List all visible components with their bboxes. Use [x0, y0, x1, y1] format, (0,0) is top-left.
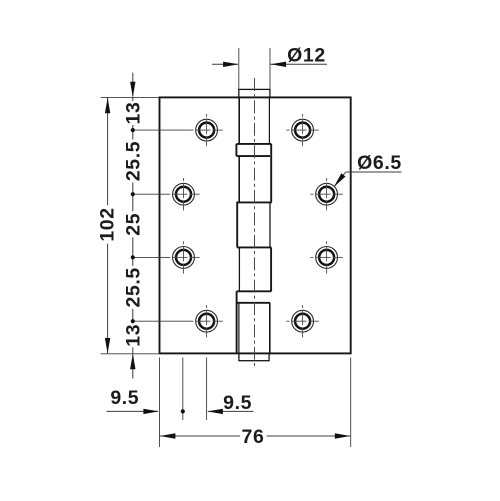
- svg-text:25: 25: [122, 213, 144, 236]
- svg-text:76: 76: [242, 426, 265, 448]
- svg-text:25.5: 25.5: [122, 141, 144, 181]
- svg-text:Ø6.5: Ø6.5: [357, 152, 402, 174]
- svg-text:13: 13: [122, 102, 144, 125]
- svg-text:9.5: 9.5: [223, 392, 252, 414]
- svg-text:13: 13: [122, 324, 144, 347]
- svg-text:Ø12: Ø12: [287, 44, 326, 66]
- svg-text:25.5: 25.5: [122, 267, 144, 307]
- svg-text:102: 102: [97, 207, 119, 241]
- svg-text:9.5: 9.5: [110, 387, 139, 409]
